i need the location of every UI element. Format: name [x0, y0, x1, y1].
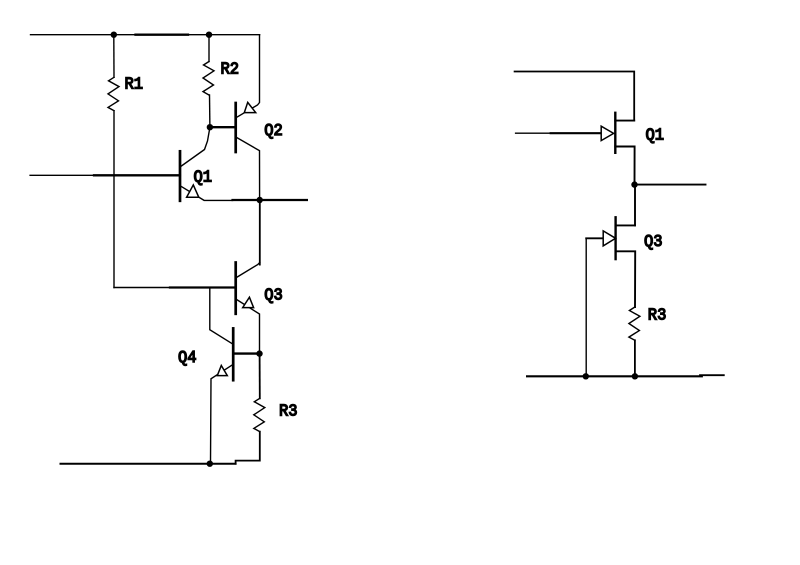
wire R2 top lead — [208, 35, 210, 62]
transistor Q3 base bar — [234, 263, 237, 314]
mosfet Q3 source stub — [616, 251, 636, 307]
transistor Q3 collector wire — [236, 263, 260, 278]
node junction bottom rail / R3 — [632, 373, 638, 379]
mosfet Q1 gate arrow — [601, 126, 613, 140]
svg-text:R3: R3 — [648, 307, 667, 326]
transistor Q4 emitter arrow — [217, 366, 227, 376]
svg-text:Q2: Q2 — [264, 122, 283, 141]
node junction Q3 emitter / Q4 base / R3 — [256, 350, 262, 356]
node junction Q1 source / Q3 drain / output — [631, 181, 637, 187]
wire top rail overlap thick segment — [136, 34, 189, 36]
wire node down to Q3 drain — [634, 185, 636, 226]
wire bottom rail right extension — [700, 374, 724, 376]
transistor Q2 base bar — [234, 103, 237, 152]
svg-text:R1: R1 — [125, 76, 144, 95]
wire R2 bottom lead to Q2 base node — [209, 95, 211, 127]
node junction R2 / Q2 base / Q1 collector — [207, 124, 213, 130]
mosfet Q1 gate wire — [516, 132, 602, 134]
transistor Q4 emitter wire — [211, 364, 234, 463]
mosfet Q3 gate wire — [586, 237, 603, 239]
wire R3 bottom lead — [236, 432, 260, 464]
mosfet Q1 drain stub — [615, 120, 634, 122]
wire R1 bottom lead down to Q3 base level — [113, 111, 115, 288]
transistor Q3 base wire overlap thick segment — [170, 286, 236, 288]
transistor Q2 emitter arrow — [244, 102, 255, 112]
node junction Q1 emitter / Q2 collector / Q3 collector — [257, 197, 263, 203]
transistor Q3 emitter arrow — [243, 297, 254, 307]
svg-text:Q3: Q3 — [644, 233, 663, 252]
svg-text:R2: R2 — [221, 60, 240, 79]
wire top rail left circuit — [31, 34, 260, 36]
resistor R3 right — [629, 307, 640, 340]
transistor Q3 emitter wire — [236, 299, 260, 354]
wire top rail right circuit — [515, 72, 635, 121]
wire bottom rail right circuit — [527, 375, 702, 377]
resistor R1 — [108, 77, 119, 110]
node junction bottom rail / Q3 gate — [583, 373, 589, 379]
mosfet Q1 gate wire overlap thick segment — [551, 132, 602, 134]
node junction top rail / R1 — [111, 32, 117, 38]
transistor Q1 base wire overlap thick segment — [94, 174, 180, 176]
svg-text:R3: R3 — [279, 403, 298, 422]
wire R3 bottom lead to rail — [634, 340, 636, 376]
wire Q1 emitter to output node — [233, 199, 307, 201]
transistor Q4 base wire — [233, 352, 259, 354]
transistor Q4 base bar — [232, 328, 235, 380]
transistor Q1 base wire — [30, 174, 180, 176]
wire bottom rail left circuit — [61, 463, 236, 465]
wire R1 top lead — [113, 35, 115, 78]
transistor Q1 emitter arrow — [187, 185, 199, 197]
wire output node to right — [635, 184, 706, 186]
transistor Q2 base wire — [210, 126, 236, 128]
resistor R2 — [203, 62, 214, 96]
transistor Q1 emitter wire — [180, 186, 233, 201]
transistor Q3 base wire from R1 branch — [114, 287, 236, 289]
wire node down to Q3 collector — [259, 200, 261, 265]
svg-text:Q4: Q4 — [178, 349, 197, 368]
mosfet Q3 bar — [614, 217, 616, 259]
transistor Q1 base bar — [179, 151, 182, 201]
svg-text:Q1: Q1 — [194, 169, 213, 188]
mosfet Q3 drain stub — [616, 224, 635, 226]
wire Q3 gate down to bottom rail — [585, 238, 587, 376]
mosfet Q1 bar — [614, 113, 616, 153]
wire R3 top lead — [259, 354, 261, 399]
mosfet Q1 source stub — [615, 147, 634, 185]
transistor Q2 emitter wire — [236, 35, 260, 118]
svg-text:Q3: Q3 — [264, 286, 283, 305]
resistor R3 — [254, 398, 265, 431]
node junction top rail / R2 — [206, 32, 212, 38]
transistor Q2 collector wire — [236, 137, 260, 200]
node junction bottom rail / Q4 emitter — [207, 461, 213, 467]
transistor Q4 collector wire — [210, 288, 233, 345]
svg-text:Q1: Q1 — [646, 127, 665, 146]
mosfet Q3 gate arrow — [603, 231, 615, 246]
transistor Q1 collector wire — [180, 127, 210, 167]
